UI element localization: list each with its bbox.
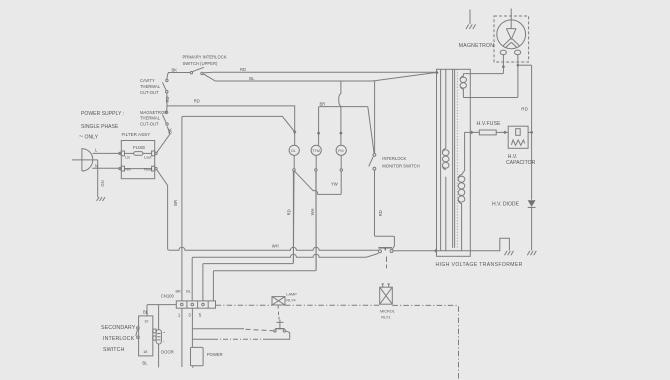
svg-text:MICRO1: MICRO1 <box>380 310 395 314</box>
connector CN100 body <box>176 301 215 308</box>
wire: door linkage below <box>158 344 160 367</box>
svg-text:BR: BR <box>176 290 182 294</box>
svg-text:RD: RD <box>521 106 528 111</box>
wire: fuse to Lout <box>143 152 152 154</box>
fuse F1 <box>134 152 143 156</box>
svg-text:H.V. DIODE: H.V. DIODE <box>492 202 520 208</box>
svg-text:PRIMARY INTERLOCK: PRIMARY INTERLOCK <box>183 55 227 60</box>
junction: transformer top node diamond <box>435 71 439 75</box>
svg-text:3: 3 <box>188 313 191 318</box>
svg-text:BK: BK <box>168 128 173 134</box>
wire: line B pin3 to relay left contact with hops <box>192 253 378 301</box>
svg-text:BR: BR <box>173 200 178 206</box>
capacitor HV: box <box>508 126 528 148</box>
svg-text:LAMP: LAMP <box>286 292 297 296</box>
door sense switch blade <box>275 328 284 330</box>
magnetron cathode V <box>503 29 520 48</box>
terminal: Lin square <box>121 151 124 156</box>
svg-text:CUT-OUT: CUT-OUT <box>140 121 159 126</box>
node: Nout terminal circle <box>155 168 157 170</box>
svg-text:YW: YW <box>331 181 338 186</box>
diode HV: triangle <box>528 200 536 207</box>
primary interlock switch contacts <box>190 72 192 74</box>
svg-text:SECONDARY: SECONDARY <box>101 325 136 331</box>
magnetron thermal cut-out switch contacts <box>165 111 167 113</box>
svg-text:FM: FM <box>338 149 343 153</box>
wire: FM down to YW line <box>340 171 342 194</box>
wire: BR path from CN100 pin1 up and over to OL <box>182 116 295 301</box>
svg-text:Nin: Nin <box>125 168 131 172</box>
wire: top of chain to main BK wire <box>167 73 190 80</box>
wire: right filament lead down <box>463 55 518 98</box>
junction: right filament diamond <box>516 63 519 67</box>
wire: HV fuse right lead to capacitor <box>496 131 508 133</box>
junction: OL feed diamond <box>293 130 296 134</box>
svg-text:H.V.: H.V. <box>508 154 517 160</box>
svg-text:BK: BK <box>172 67 178 72</box>
svg-text:GN: GN <box>100 180 105 186</box>
svg-text:CAPACITOR: CAPACITOR <box>506 160 536 166</box>
node: Nin terminal circle <box>119 168 121 170</box>
svg-text:RLY1: RLY1 <box>381 315 390 319</box>
wire: pin3 down to POWER box <box>191 308 193 347</box>
svg-text:H.V.FUSE: H.V.FUSE <box>477 121 502 127</box>
magnetron tube circle <box>497 20 526 49</box>
wire: BL branch down to monitor switch <box>374 81 376 153</box>
wire: left filament lead down and to filament winding <box>463 55 503 74</box>
wire: pin3 branch to door sense switch <box>192 328 244 330</box>
svg-text:~ ONLY: ~ ONLY <box>79 134 99 141</box>
cavity thermal cut-out lever <box>162 82 166 90</box>
svg-text:BR: BR <box>320 102 326 107</box>
junction: capacitor left diamond <box>503 131 506 135</box>
ground: GN chassis ground <box>97 197 106 201</box>
wire: CN100 left to secondary interlock <box>147 305 176 316</box>
junction: rail capacitor diamond <box>530 131 533 135</box>
svg-text:TTM: TTM <box>312 149 320 153</box>
svg-text:Lin: Lin <box>125 155 130 159</box>
magnetron case dashed box <box>494 16 529 62</box>
svg-text:DOOR: DOOR <box>161 349 174 354</box>
door plunger capsule <box>156 330 161 344</box>
svg-text:RD: RD <box>165 96 170 102</box>
svg-text:BL: BL <box>143 310 149 315</box>
transformer T1 outer case <box>437 69 471 256</box>
monitor switch lever <box>369 157 374 167</box>
node: Lout terminal circle <box>155 152 157 154</box>
oven lamp OL <box>289 145 299 155</box>
magnetron thermal cut-out lever <box>162 115 166 123</box>
wire: right filament to HV rail <box>518 64 532 66</box>
svg-text:RD: RD <box>240 67 246 72</box>
wire: Lin to fuse <box>125 152 134 154</box>
svg-text:INTERLOCK: INTERLOCK <box>382 156 406 161</box>
svg-text:RLY4: RLY4 <box>286 299 295 303</box>
wire: TTM vertical down (WH) <box>315 171 317 269</box>
terminal: Nin square <box>121 166 124 171</box>
svg-text:POWER SUPPLY :: POWER SUPPLY : <box>81 111 124 117</box>
wire: bus TTM feed <box>319 107 368 146</box>
magnetron antenna <box>506 9 516 29</box>
transformer core pair <box>453 69 455 248</box>
wire: slant from bus to monitor switch <box>368 107 374 154</box>
svg-text:SWITCH (UPPER): SWITCH (UPPER) <box>183 61 219 66</box>
node: Lin terminal circle <box>119 152 121 154</box>
svg-text:OL: OL <box>291 149 296 153</box>
svg-text:5: 5 <box>199 313 202 318</box>
node: relay right contact <box>390 250 393 253</box>
svg-text:FUSE: FUSE <box>133 145 145 150</box>
wire: Nin to Nout internal <box>125 168 152 170</box>
primary winding loops <box>442 148 449 170</box>
wire: BL from interlock <box>203 72 437 81</box>
junction: fuse lead crossing diamond <box>470 131 473 135</box>
terminal: Lout square <box>152 151 155 156</box>
wire: main dash-dot control line from CN100 <box>216 304 273 306</box>
wire: WH line with hops to relay left contact <box>168 247 379 250</box>
wire: lamp relay linkage dash down to door sense switch <box>278 312 281 320</box>
wire: HV rail down <box>531 65 533 200</box>
svg-text:Lout: Lout <box>144 155 152 159</box>
transformer core line 2 with primary winding <box>445 69 447 250</box>
svg-text:SWITCH: SWITCH <box>103 347 125 353</box>
wire: OL to YW line diagonal with hop over TTM wire <box>295 171 342 194</box>
svg-text:SINGLE PHASE: SINGLE PHASE <box>81 124 119 130</box>
wire: L pin to filter Lin <box>93 152 122 154</box>
relay LAMP RLY4 box <box>272 297 285 305</box>
bleeder resistor zigzag <box>511 140 524 145</box>
wire: OL vertical down (RD) <box>292 171 295 262</box>
wire: GN drop to chassis <box>97 160 99 197</box>
FILTER ASSY box <box>121 141 154 179</box>
svg-text:RD: RD <box>378 210 383 216</box>
timer motor TTM <box>311 145 321 155</box>
fuse HV: box <box>479 130 496 135</box>
svg-text:BL: BL <box>142 360 148 365</box>
junction: transformer bottom node diamond <box>434 249 438 253</box>
pin 5 <box>202 303 205 306</box>
wire: dash-dot to right corner and down <box>392 305 458 380</box>
svg-text:MAGNETRON: MAGNETRON <box>140 110 167 115</box>
wire: door linkage drop <box>158 305 160 330</box>
wire: lamp relay actuator tick <box>277 305 279 309</box>
wire: switch return to pin3 vertical <box>268 331 290 339</box>
svg-text:MONITOR SWITCH: MONITOR SWITCH <box>382 164 419 169</box>
wire: line C pin5 to OL vertical <box>203 171 294 301</box>
relay MICRO RLY1 box <box>380 287 393 304</box>
capacitor element <box>516 129 521 136</box>
svg-text:MAGNETRON: MAGNETRON <box>459 43 494 49</box>
filament winding <box>460 74 466 98</box>
pin 1 <box>181 303 184 306</box>
wire: FM feed from BL wire with jog <box>339 81 341 145</box>
wire: Nout down to WH line <box>157 169 168 248</box>
wire: dash-dot between relays <box>285 304 380 306</box>
magnetron filament loops <box>500 50 506 55</box>
svg-text:10: 10 <box>144 319 148 323</box>
wire: diode to ground <box>531 207 533 250</box>
wire: N pin to filter Nin <box>92 167 121 169</box>
node: relay left contact <box>378 250 381 253</box>
wire: chain between cut-outs <box>166 93 168 111</box>
secondary interlock plunger tabs <box>153 329 156 333</box>
svg-text:POWER: POWER <box>207 352 223 357</box>
POWER box <box>191 347 204 365</box>
wire: capacitor right lead <box>528 131 532 133</box>
wire: RD feed to OL <box>167 106 295 145</box>
node: monitor switch bottom contact <box>373 167 376 170</box>
transformer core line 1 <box>440 69 442 250</box>
svg-text:FILTER ASSY: FILTER ASSY <box>122 132 151 137</box>
svg-text:INTERLOCK: INTERLOCK <box>103 336 135 342</box>
node: TTM bottom contact <box>315 169 317 171</box>
cavity thermal cut-out switch contacts <box>166 79 168 81</box>
ground: magnetron frame ground <box>466 10 476 30</box>
transformer core dashed <box>456 69 458 248</box>
junction: TTM feed diamond <box>317 131 320 135</box>
secondary interlock contacts <box>137 327 140 330</box>
ground: HV rail ground <box>527 251 536 255</box>
svg-text:BL: BL <box>249 76 255 81</box>
diode HV: bar <box>528 206 536 208</box>
wire: line D to TTM vertical <box>213 171 316 301</box>
pin 3 <box>191 303 194 306</box>
svg-text:WH: WH <box>310 208 315 215</box>
svg-text:18: 18 <box>143 350 147 354</box>
wire: RD from interlock to transformer node <box>203 71 437 74</box>
svg-text:RD: RD <box>194 99 200 104</box>
wire: Lout up to magnetron thermal cut-out (BK) <box>157 126 171 152</box>
svg-text:Nout: Nout <box>144 168 153 172</box>
fan motor FM <box>336 145 346 155</box>
svg-text:WH: WH <box>272 243 279 248</box>
svg-text:HIGH VOLTAGE TRANSFORMER: HIGH VOLTAGE TRANSFORMER <box>436 262 523 268</box>
junction: left filament diamond <box>502 65 505 69</box>
wire: POWER box bottom stub <box>192 366 194 368</box>
svg-text:CUT-OUT: CUT-OUT <box>140 90 159 95</box>
svg-text:RD: RD <box>287 209 292 215</box>
wire: relay right contact to transformer bottom node <box>393 238 509 251</box>
node: FM bottom contact <box>340 169 342 171</box>
svg-text:CN100: CN100 <box>161 294 175 299</box>
relay blade <box>378 248 392 251</box>
svg-text:1: 1 <box>178 313 181 318</box>
svg-text:THERMAL: THERMAL <box>140 84 161 89</box>
secondary interlock switch box <box>139 316 153 356</box>
svg-text:CAVITY: CAVITY <box>140 78 155 83</box>
ground: transformer secondary ground <box>505 251 514 255</box>
secondary interlock lever <box>136 329 138 336</box>
relay actuator dash <box>386 257 388 269</box>
wire: pin1 BR down <box>181 308 183 367</box>
node: door sense switch contacts <box>274 330 276 332</box>
wire: plug cord (ground pin) <box>72 159 98 161</box>
junction: FM feed diamond <box>339 131 342 135</box>
terminal: Nout square <box>152 166 155 171</box>
node: OL bottom contact <box>293 169 295 171</box>
wire: HV fuse left lead into transformer <box>462 132 480 174</box>
door sense switch cross actuator <box>276 320 283 329</box>
node: monitor switch top contact <box>373 154 376 157</box>
svg-text:BL: BL <box>186 290 191 294</box>
primary interlock switch lever <box>192 67 204 71</box>
micro relay coil ticks <box>382 284 390 287</box>
svg-text:THERMAL: THERMAL <box>140 116 161 121</box>
plug P1 body <box>82 148 93 171</box>
secondary winding <box>458 175 465 251</box>
wire: monitor switch down RD to relay contact <box>375 170 395 249</box>
